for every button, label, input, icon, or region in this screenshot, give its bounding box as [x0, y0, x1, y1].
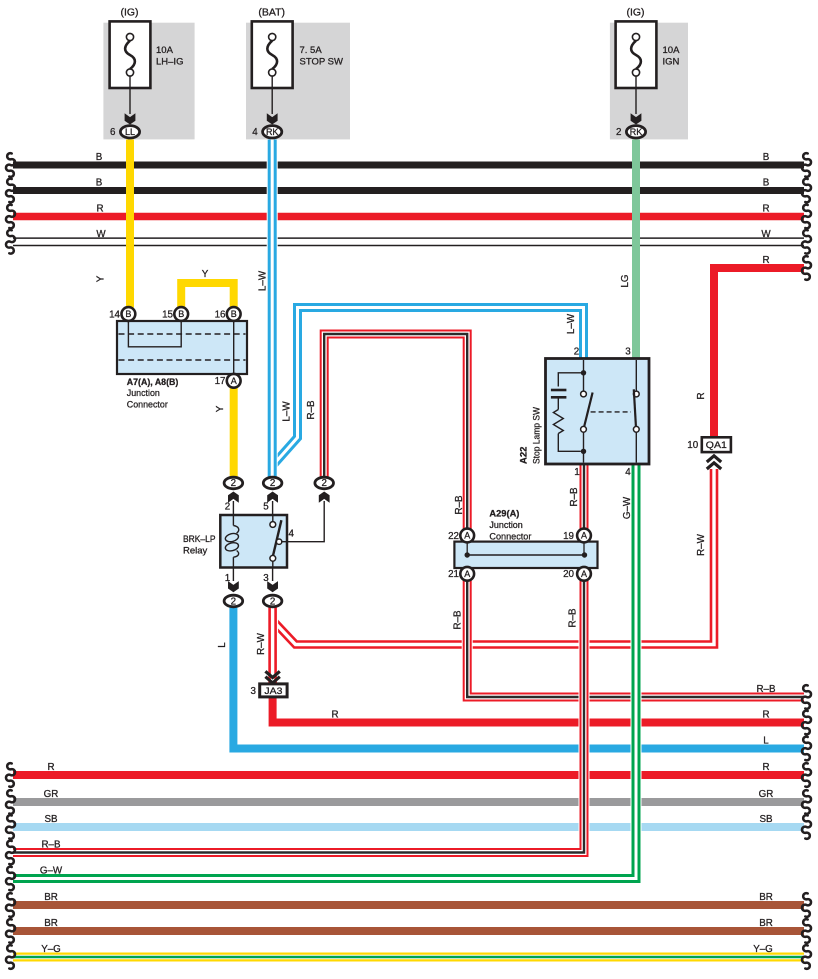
svg-text:BR: BR — [44, 918, 58, 929]
svg-text:6: 6 — [110, 127, 116, 138]
svg-text:10: 10 — [687, 440, 698, 451]
svg-text:1: 1 — [574, 467, 579, 478]
svg-text:B: B — [231, 309, 237, 319]
svg-text:STOP SW: STOP SW — [300, 57, 343, 68]
svg-text:R–B: R–B — [454, 495, 465, 515]
svg-text:W: W — [96, 229, 106, 240]
svg-text:R: R — [696, 392, 707, 399]
svg-text:BR: BR — [759, 892, 773, 903]
svg-text:G–W: G–W — [622, 496, 633, 519]
svg-text:7. 5A: 7. 5A — [300, 45, 323, 56]
svg-text:1: 1 — [225, 573, 230, 584]
svg-text:R–B: R–B — [306, 400, 317, 420]
svg-text:R–B: R–B — [568, 608, 579, 628]
svg-text:2: 2 — [321, 478, 326, 489]
svg-text:R–W: R–W — [696, 533, 707, 556]
svg-text:A7(A), A8(B): A7(A), A8(B) — [127, 376, 179, 387]
svg-text:20: 20 — [563, 569, 574, 580]
svg-text:(IG): (IG) — [626, 7, 644, 19]
svg-text:G–W: G–W — [40, 866, 63, 877]
svg-text:B: B — [96, 152, 103, 163]
svg-text:A: A — [581, 569, 587, 579]
svg-text:10A: 10A — [663, 45, 681, 56]
svg-text:Y–G: Y–G — [753, 944, 773, 955]
svg-text:R: R — [762, 255, 769, 266]
svg-text:L–W: L–W — [282, 401, 293, 422]
svg-text:2: 2 — [270, 478, 275, 489]
svg-text:B: B — [125, 309, 131, 319]
svg-text:2: 2 — [574, 347, 579, 358]
svg-text:B: B — [763, 178, 770, 189]
svg-text:W: W — [761, 229, 771, 240]
svg-text:BRK–LP: BRK–LP — [183, 534, 216, 545]
svg-text:(IG): (IG) — [120, 7, 138, 19]
svg-text:2: 2 — [231, 596, 236, 607]
svg-text:A: A — [231, 376, 237, 386]
svg-text:3: 3 — [250, 686, 256, 697]
svg-text:Y: Y — [202, 269, 209, 280]
svg-text:Y: Y — [215, 405, 226, 412]
svg-text:17: 17 — [215, 376, 226, 387]
svg-text:4: 4 — [289, 529, 295, 540]
svg-text:(BAT): (BAT) — [258, 7, 285, 19]
svg-text:Junction: Junction — [127, 388, 160, 399]
svg-text:LH–IG: LH–IG — [156, 57, 183, 68]
svg-text:22: 22 — [448, 531, 459, 542]
svg-text:RK: RK — [630, 127, 643, 137]
svg-text:R–B: R–B — [41, 840, 61, 851]
svg-text:B: B — [763, 152, 770, 163]
svg-text:Y–G: Y–G — [41, 944, 61, 955]
svg-text:3: 3 — [625, 347, 631, 358]
svg-text:A: A — [581, 531, 587, 541]
svg-text:R: R — [331, 710, 338, 721]
svg-text:GR: GR — [44, 789, 59, 800]
svg-text:R–W: R–W — [256, 632, 267, 655]
svg-text:LG: LG — [620, 274, 631, 287]
svg-text:2: 2 — [225, 502, 230, 513]
svg-text:Stop Lamp SW: Stop Lamp SW — [532, 407, 543, 464]
svg-text:2: 2 — [616, 127, 621, 138]
svg-text:R: R — [762, 710, 769, 721]
svg-text:L–W: L–W — [258, 270, 269, 291]
svg-text:A22: A22 — [519, 447, 530, 464]
svg-text:R: R — [762, 204, 769, 215]
svg-text:A: A — [464, 531, 470, 541]
svg-text:SB: SB — [759, 814, 773, 825]
svg-text:B: B — [178, 309, 184, 319]
svg-text:21: 21 — [448, 569, 459, 580]
svg-text:R–B: R–B — [453, 610, 464, 630]
svg-text:19: 19 — [563, 531, 574, 542]
svg-text:IGN: IGN — [663, 57, 680, 68]
svg-text:SB: SB — [44, 814, 58, 825]
svg-text:LL: LL — [125, 127, 135, 137]
svg-text:15: 15 — [162, 309, 173, 320]
svg-text:R–B: R–B — [569, 487, 580, 507]
svg-text:BR: BR — [44, 892, 58, 903]
svg-text:GR: GR — [759, 789, 774, 800]
svg-text:2: 2 — [231, 478, 236, 489]
svg-text:Junction: Junction — [489, 520, 522, 531]
svg-text:QA1: QA1 — [706, 440, 727, 450]
svg-text:L–W: L–W — [566, 313, 577, 334]
svg-text:5: 5 — [263, 502, 269, 513]
svg-text:A29(A): A29(A) — [489, 508, 519, 519]
svg-text:Relay: Relay — [183, 546, 208, 557]
svg-text:R–B: R–B — [756, 684, 776, 695]
svg-text:16: 16 — [215, 309, 226, 320]
svg-text:2: 2 — [270, 596, 275, 607]
svg-text:14: 14 — [109, 309, 120, 320]
svg-text:Connector: Connector — [489, 531, 531, 542]
svg-text:Connector: Connector — [127, 400, 168, 411]
svg-text:B: B — [96, 178, 103, 189]
svg-text:4: 4 — [252, 127, 258, 138]
svg-text:3: 3 — [263, 573, 269, 584]
svg-text:L: L — [217, 642, 228, 648]
svg-text:R: R — [47, 762, 54, 773]
svg-text:R: R — [762, 762, 769, 773]
svg-text:RK: RK — [266, 127, 279, 137]
svg-text:R: R — [96, 204, 103, 215]
svg-text:Y: Y — [96, 275, 107, 282]
svg-text:BR: BR — [759, 918, 773, 929]
svg-text:JA3: JA3 — [264, 686, 282, 696]
svg-text:4: 4 — [625, 467, 631, 478]
svg-text:A: A — [464, 569, 470, 579]
svg-text:10A: 10A — [156, 45, 174, 56]
svg-text:L: L — [763, 736, 769, 747]
